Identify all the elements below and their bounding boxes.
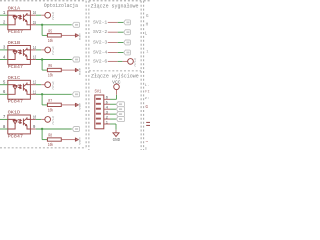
wire collector to VCC xyxy=(36,49,41,51)
svg-text:D: D xyxy=(79,38,81,41)
svg-text:D: D xyxy=(79,108,81,111)
wire pin 4 left xyxy=(0,59,8,61)
optocoupler OK1C xyxy=(8,80,31,99)
section box Optoizolacja border right xyxy=(85,1,87,148)
junction xyxy=(41,58,43,60)
wire emitter net xyxy=(36,128,72,130)
pin stub collector xyxy=(30,84,35,86)
pin contact 1 xyxy=(96,123,101,125)
wire junction down xyxy=(41,60,43,71)
wire pin 4 xyxy=(110,108,116,110)
pin stub collector xyxy=(30,118,35,120)
wire pin 3 xyxy=(110,113,116,115)
svg-text:G: G xyxy=(146,15,149,19)
svg-text:Złącze wyjściowe: Złącze wyjściowe xyxy=(91,73,139,80)
wire stub SV2-4 xyxy=(108,52,118,54)
wire pin 8 left xyxy=(0,128,8,130)
wire pin 5 left xyxy=(0,84,8,86)
wire to resistor xyxy=(42,69,47,71)
svg-text:OK1D: OK1D xyxy=(8,110,21,116)
svg-text:FI: FI xyxy=(145,91,150,95)
svg-text:10k: 10k xyxy=(48,38,53,44)
svg-text:3: 3 xyxy=(106,111,109,115)
wire pin 2 left xyxy=(0,24,8,26)
wire pin 3 left xyxy=(0,49,8,51)
net flag pin 2 xyxy=(116,117,124,122)
wire stub SV2-3 xyxy=(108,41,118,43)
svg-text:OK1A: OK1A xyxy=(8,5,21,11)
wire pin 1 left xyxy=(0,14,8,16)
pin stub 2 xyxy=(104,118,110,120)
supply VCC circle xyxy=(45,82,51,88)
net flag pin 4 xyxy=(116,107,124,112)
resistor R5 xyxy=(47,34,61,37)
wire pin 2 xyxy=(110,118,116,120)
svg-text:R8: R8 xyxy=(48,133,52,139)
wire collector to VCC xyxy=(36,118,41,120)
svg-text:5: 5 xyxy=(106,102,109,106)
net flag SV2-4 xyxy=(124,50,131,55)
supply GND arrow xyxy=(74,138,76,142)
supply VCC circle SV2-6 xyxy=(128,59,134,65)
wire pin 6 left xyxy=(0,93,8,95)
capacitor fragment right edge xyxy=(146,122,150,123)
wire to resistor xyxy=(42,104,47,106)
svg-text:Optoizolacja: Optoizolacja xyxy=(44,2,79,9)
wire stub SV2-6 xyxy=(108,60,118,62)
net flag SV2-2 xyxy=(124,30,131,35)
wire collector to VCC xyxy=(36,84,41,86)
svg-text:C: C xyxy=(134,63,136,67)
svg-text:10k: 10k xyxy=(48,142,53,148)
supply GND xyxy=(112,133,119,137)
svg-text:G: G xyxy=(145,104,148,110)
wire pin 5 xyxy=(110,103,116,105)
section box Optoizolacja border bottom xyxy=(0,147,86,149)
svg-text:OK1B: OK1B xyxy=(8,40,21,46)
svg-text:PC847: PC847 xyxy=(8,29,24,35)
svg-text:1: 1 xyxy=(106,121,109,125)
svg-text:R6: R6 xyxy=(48,63,52,69)
svg-text:s: s xyxy=(145,147,148,150)
pin stub 5 xyxy=(104,103,110,105)
pin stub 4 xyxy=(104,108,110,110)
supply GND arrow xyxy=(74,68,76,72)
connector SV1 box xyxy=(95,95,104,129)
pin stub 3 xyxy=(104,113,110,115)
section box Zlacze sygnalowe / wyjsciowe borders xyxy=(89,0,141,2)
wire pin 7 left xyxy=(0,118,8,120)
pin stub emitter xyxy=(30,93,35,95)
wire junction down xyxy=(41,94,43,105)
optocoupler OK1A xyxy=(8,11,31,30)
wire to resistor xyxy=(42,34,47,36)
wire pin1 to GND xyxy=(104,123,110,125)
wire junction down xyxy=(41,25,43,36)
pin contact 2 xyxy=(96,118,101,120)
svg-text:L: L xyxy=(145,33,148,37)
svg-text:L.: L. xyxy=(145,84,150,88)
net flag SV2-3 xyxy=(124,40,131,45)
section box right cut-off border xyxy=(143,1,145,150)
junction xyxy=(41,128,43,130)
svg-text:SV2-1: SV2-1 xyxy=(93,19,108,25)
optocoupler OK1B xyxy=(8,46,31,65)
supply VCC xyxy=(114,84,120,90)
svg-text:VCC: VCC xyxy=(112,81,121,86)
svg-text:C: C xyxy=(52,121,54,125)
resistor R7 xyxy=(47,103,61,106)
net flag emitter xyxy=(72,127,79,132)
svg-text:SV1: SV1 xyxy=(95,89,102,95)
supply VCC circle xyxy=(45,117,51,123)
svg-text:10k: 10k xyxy=(48,73,53,79)
svg-text:D: D xyxy=(79,142,81,145)
wire stub SV2-1 xyxy=(108,21,118,23)
svg-text:4: 4 xyxy=(106,106,109,110)
wire stub SV2-2 xyxy=(108,31,118,33)
svg-text:SV2-3: SV2-3 xyxy=(93,39,108,45)
svg-text:R7: R7 xyxy=(48,98,52,104)
pin contact 5 xyxy=(96,103,101,105)
svg-text:10k: 10k xyxy=(48,107,53,113)
wire to resistor xyxy=(42,139,47,141)
svg-text:SV2-6: SV2-6 xyxy=(93,58,108,64)
net flag emitter xyxy=(72,22,79,27)
svg-text:PC847: PC847 xyxy=(8,99,24,105)
net flag pin 3 xyxy=(116,112,124,117)
net flag emitter xyxy=(72,57,79,62)
pin stub emitter xyxy=(30,24,35,26)
net flag SV2-1 xyxy=(124,20,131,25)
supply GND arrow xyxy=(74,34,76,38)
pin contact 4 xyxy=(96,108,101,110)
wire resistor to GND xyxy=(61,104,75,106)
pin stub emitter xyxy=(30,59,35,61)
net flag pin 5 xyxy=(116,102,124,107)
svg-text:GND: GND xyxy=(113,138,121,143)
svg-text:SV2-4: SV2-4 xyxy=(93,49,108,55)
junction xyxy=(41,24,43,26)
pin stub collector xyxy=(30,14,35,16)
wire pin6 to VCC xyxy=(104,98,110,100)
wire junction down xyxy=(41,129,43,140)
svg-text:~: ~ xyxy=(145,140,148,145)
svg-text:C: C xyxy=(52,87,54,91)
section box Optoizolacja border top xyxy=(0,0,86,2)
svg-text:2: 2 xyxy=(106,116,109,120)
wire resistor to GND xyxy=(61,34,75,36)
svg-text:PC847: PC847 xyxy=(8,64,24,70)
pin stub emitter xyxy=(30,128,35,130)
svg-text:D: D xyxy=(79,73,81,76)
svg-text:SV2-2: SV2-2 xyxy=(93,29,108,35)
supply VCC circle xyxy=(45,12,51,18)
wire emitter net xyxy=(36,93,72,95)
resistor R6 xyxy=(47,68,61,71)
pin contact 3 xyxy=(96,113,101,115)
svg-text:R5: R5 xyxy=(48,28,52,34)
supply VCC circle xyxy=(45,47,51,53)
svg-text:Złącze sygnałowe: Złącze sygnałowe xyxy=(91,3,139,10)
svg-text:6: 6 xyxy=(106,97,109,101)
svg-text:H: H xyxy=(146,24,149,28)
optocoupler OK1D xyxy=(8,115,31,134)
svg-text:1: 1 xyxy=(146,51,148,55)
pin stub collector xyxy=(30,49,35,51)
pin contact 6 xyxy=(96,98,101,100)
wire resistor to GND xyxy=(61,139,75,141)
svg-text:z:: z: xyxy=(145,97,150,101)
wire emitter net xyxy=(36,24,72,26)
svg-text:C: C xyxy=(52,52,54,56)
net flag emitter xyxy=(72,92,79,97)
wire collector to VCC xyxy=(36,14,41,16)
junction xyxy=(41,93,43,95)
svg-text:OK1C: OK1C xyxy=(8,75,21,81)
supply GND arrow xyxy=(74,103,76,107)
svg-text:C: C xyxy=(52,17,54,21)
resistor R8 xyxy=(47,138,61,141)
wire resistor to GND xyxy=(61,69,75,71)
svg-text:PC847: PC847 xyxy=(8,133,24,139)
wire emitter net xyxy=(36,59,72,61)
